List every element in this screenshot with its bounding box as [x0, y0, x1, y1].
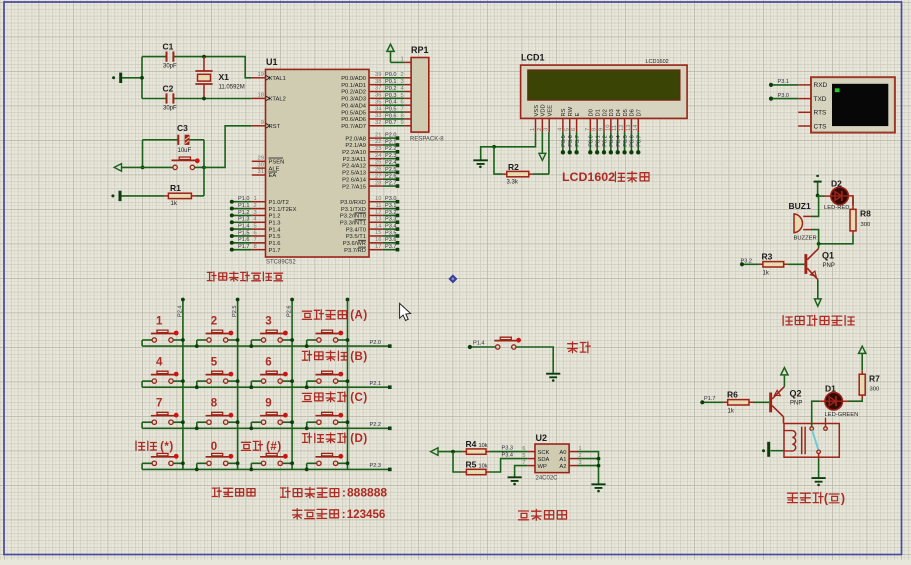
U1 pin 1 P1.0: [252, 201, 266, 203]
svg-text:RP1: RP1: [411, 45, 429, 55]
svg-text:P2.5/A13: P2.5/A13: [342, 171, 366, 177]
U1 pin 21 P2.0: [369, 137, 383, 139]
U1 pin 8 P1.7: [252, 249, 266, 251]
net P3.7 terminal: [383, 249, 397, 251]
svg-text:9: 9: [599, 128, 605, 131]
wire: [819, 235, 853, 244]
net P2.1 terminal: [388, 385, 392, 389]
U2 pin 6 SCK: [527, 451, 535, 453]
svg-text:P1.6: P1.6: [269, 241, 281, 247]
svg-text:15: 15: [375, 230, 381, 236]
svg-text:123456: 123456: [347, 508, 386, 521]
svg-text:): ): [841, 491, 845, 505]
wire net P3.5: [562, 132, 564, 152]
junction: [195, 468, 199, 472]
wire net P0.1: [596, 132, 598, 152]
wire: [577, 458, 599, 460]
svg-text:D1: D1: [825, 384, 836, 394]
svg-text:P2.2: P2.2: [385, 146, 397, 152]
button row4 col1: [142, 462, 152, 464]
svg-text:300: 300: [861, 222, 871, 228]
svg-text:RTS: RTS: [814, 110, 828, 117]
U1 pin 19 XTAL1: [252, 77, 266, 79]
svg-text:LCD1602: LCD1602: [646, 59, 669, 65]
svg-text:P0.1: P0.1: [595, 135, 601, 147]
U2 pin 7 WP: [527, 465, 535, 467]
U1 pin 33 P0.6: [369, 118, 383, 120]
svg-text:RXD: RXD: [814, 82, 828, 89]
wire VSS: [494, 132, 536, 147]
svg-text:X1: X1: [219, 72, 230, 82]
svg-text:11: 11: [612, 125, 618, 131]
svg-text:P3.3: P3.3: [502, 446, 514, 452]
text 一键还原（B）: [302, 351, 311, 361]
net P3.3 terminal: [383, 221, 397, 223]
net P2.2 terminal: [383, 151, 397, 153]
text 指纹: [568, 342, 578, 353]
svg-text:R4: R4: [466, 439, 477, 449]
net P1.4: [470, 346, 496, 348]
svg-text:RESPACK-8: RESPACK-8: [410, 137, 444, 143]
svg-text:27: 27: [375, 173, 381, 179]
wire: [825, 418, 827, 427]
svg-text:19: 19: [258, 72, 264, 78]
svg-text:R7: R7: [869, 374, 880, 384]
svg-text:VEE: VEE: [548, 105, 554, 117]
svg-text:(*): (*): [160, 441, 174, 453]
wire net P0.5: [624, 132, 626, 152]
wire net P0.2: [383, 91, 405, 93]
svg-text:P0.1/AD1: P0.1/AD1: [341, 83, 366, 89]
svg-text:1k: 1k: [763, 271, 770, 277]
wire: [788, 263, 805, 265]
ground: [508, 477, 522, 481]
svg-text:P2.3/A11: P2.3/A11: [343, 157, 366, 163]
U1 pin 38 P0.1: [369, 84, 383, 86]
svg-text:2: 2: [211, 316, 217, 328]
svg-text:29: 29: [258, 156, 264, 162]
svg-text:5: 5: [564, 128, 570, 131]
svg-text:P1.0/T2: P1.0/T2: [269, 200, 289, 206]
U1 pin 12 P3.2: [369, 214, 383, 216]
svg-text:RW: RW: [568, 106, 574, 116]
svg-text:P1.5: P1.5: [238, 230, 250, 236]
net P2.4 terminal: [383, 165, 397, 167]
button row4 col2: [197, 462, 207, 464]
svg-text:P2.7/A15: P2.7/A15: [342, 184, 366, 190]
net P2.0 terminal: [388, 344, 392, 348]
svg-text:P0.7: P0.7: [637, 135, 643, 147]
resistor pack RP1 RESPACK-8: [411, 58, 429, 133]
svg-text:R3: R3: [762, 252, 773, 262]
LED D2 LED-RED: [818, 195, 825, 197]
wire net P0.4: [617, 132, 619, 152]
text 添加指纹（C）: [302, 393, 311, 401]
svg-text:P3.1/TXD: P3.1/TXD: [341, 207, 366, 213]
U1 pin 9 RST: [252, 125, 266, 127]
net P2.1 terminal: [383, 144, 397, 146]
svg-text:P3.7: P3.7: [575, 135, 581, 147]
svg-text:R2: R2: [508, 162, 519, 172]
svg-text::: :: [342, 488, 346, 500]
svg-text:11: 11: [375, 203, 381, 209]
svg-text:P2.1: P2.1: [370, 381, 382, 387]
svg-text:31: 31: [258, 169, 264, 175]
wire: [577, 465, 599, 467]
svg-text:A2: A2: [559, 464, 566, 470]
buzzer BUZ1: [794, 214, 802, 233]
ground terminal: [771, 450, 785, 452]
svg-text:P2.5: P2.5: [385, 167, 397, 173]
fingerprint button: [496, 345, 500, 349]
svg-text:EA: EA: [269, 173, 277, 179]
svg-text:P3.2: P3.2: [385, 210, 397, 216]
U1 pin 13 P3.3: [369, 221, 383, 223]
svg-text:6: 6: [254, 230, 257, 236]
svg-text:7: 7: [585, 128, 591, 131]
svg-text:P3.2: P3.2: [741, 258, 753, 264]
svg-text:P3.6: P3.6: [385, 237, 397, 243]
text 删除指纹（D）: [302, 433, 311, 443]
svg-text:P3.0: P3.0: [385, 196, 397, 202]
svg-text:P0.4/AD4: P0.4/AD4: [341, 103, 367, 109]
svg-text:P3.7/RD: P3.7/RD: [344, 248, 366, 254]
wire net P0.7: [637, 132, 639, 152]
svg-text:17: 17: [375, 244, 381, 250]
power terminal: [114, 164, 121, 172]
LCD screen: [528, 70, 680, 100]
U1 pin 25 P2.4: [369, 165, 383, 167]
svg-text:PNP: PNP: [790, 401, 802, 407]
svg-text:P1.1: P1.1: [238, 203, 250, 209]
relay switch blade: [812, 430, 818, 449]
svg-text:25: 25: [375, 160, 381, 166]
U1 pin 7 P1.6: [252, 242, 266, 244]
junction: [492, 145, 496, 149]
svg-text:P3.4: P3.4: [502, 453, 514, 459]
wire: [783, 417, 785, 424]
U1 pin 16 P3.6: [369, 242, 383, 244]
junction: [305, 426, 309, 430]
svg-text::: :: [342, 509, 346, 521]
svg-text:P3.2/INT0: P3.2/INT0: [340, 214, 366, 220]
net P2.6 terminal: [383, 178, 397, 180]
ground: [818, 454, 820, 459]
svg-text:24C02C: 24C02C: [536, 476, 559, 482]
wire net P0.7: [383, 125, 405, 127]
RP1 pin 1: [404, 61, 411, 63]
svg-text:P1.7: P1.7: [704, 396, 716, 402]
resistor R4 10k: [462, 451, 490, 453]
svg-text:30: 30: [258, 162, 264, 168]
ground terminal (up): [814, 181, 822, 183]
relay contacts: [810, 427, 814, 431]
wire: [848, 196, 853, 200]
svg-text:P0.5: P0.5: [623, 135, 629, 147]
svg-text:38: 38: [375, 79, 381, 85]
U1 pin 37 P0.2: [369, 91, 383, 93]
svg-text:8: 8: [401, 113, 404, 119]
reset button: [143, 166, 173, 168]
svg-text:P3.1: P3.1: [778, 79, 790, 85]
svg-text:P2.5: P2.5: [232, 305, 238, 317]
svg-text:(A): (A): [350, 310, 367, 322]
power terminal VDD: [541, 132, 543, 153]
net P3.0: [771, 98, 798, 100]
wire net P0.5: [383, 111, 405, 113]
wire column 4: [347, 300, 349, 470]
wire net P0.1: [383, 84, 405, 86]
svg-text:P2.0: P2.0: [385, 133, 397, 139]
U1 pin 34 P0.5: [369, 111, 383, 113]
net P3.1 terminal: [383, 208, 397, 210]
svg-text:2: 2: [537, 128, 543, 131]
svg-text:P0.2: P0.2: [602, 135, 608, 147]
svg-text:D1: D1: [595, 109, 601, 116]
text 重置密码（A）: [302, 311, 311, 319]
svg-text:(B): (B): [350, 351, 367, 363]
ground arrow: [817, 279, 819, 299]
power terminal: [431, 448, 438, 456]
svg-text:D3: D3: [609, 109, 615, 116]
svg-text:28: 28: [375, 180, 381, 186]
svg-text:8: 8: [254, 244, 257, 250]
svg-text:BUZ1: BUZ1: [789, 201, 811, 211]
wire row bus P2.0: [142, 345, 389, 347]
svg-text:P3.0: P3.0: [778, 93, 790, 99]
svg-text:WP: WP: [538, 464, 547, 470]
svg-text:(D): (D): [350, 433, 367, 445]
svg-text:9: 9: [265, 398, 271, 410]
wire net P3.6: [569, 132, 571, 152]
svg-text:A0: A0: [559, 450, 566, 456]
svg-text:VDD: VDD: [541, 104, 547, 116]
junction: [817, 242, 821, 246]
svg-text:35: 35: [375, 99, 381, 105]
wire: [203, 140, 205, 196]
origin marker: [448, 274, 457, 283]
virtual terminal: [811, 77, 895, 132]
wire net P0.3: [383, 97, 405, 99]
resistor R3 1k: [759, 263, 788, 265]
ground: [546, 374, 560, 378]
wire net P0.2: [603, 132, 605, 152]
svg-text:300: 300: [870, 387, 880, 393]
svg-text:P3.7: P3.7: [385, 244, 397, 250]
svg-text:10uF: 10uF: [178, 148, 192, 154]
svg-text:Q2: Q2: [790, 389, 802, 399]
button row3 col4: [307, 421, 317, 423]
junction: [249, 468, 253, 472]
svg-text:7: 7: [401, 106, 404, 112]
svg-text:P0.2/AD2: P0.2/AD2: [341, 90, 366, 96]
button row4 col4: [307, 462, 317, 464]
svg-text:5: 5: [522, 453, 525, 459]
svg-text:P2.2: P2.2: [370, 422, 382, 428]
svg-text:P1.4: P1.4: [473, 341, 485, 347]
svg-text:37: 37: [375, 86, 381, 92]
wire net P0.4: [383, 104, 405, 106]
junction: [451, 450, 455, 454]
junction: [195, 426, 199, 430]
svg-text:P0.3: P0.3: [609, 135, 615, 147]
svg-text:PNP: PNP: [823, 263, 835, 269]
EEPROM U2 24C02C: [535, 444, 569, 473]
svg-text:P1.5: P1.5: [269, 234, 281, 240]
svg-text:P3.5: P3.5: [385, 230, 397, 236]
net P3.5 terminal: [383, 235, 397, 237]
U1 pin 36 P0.3: [369, 97, 383, 99]
text 声光报警电路: [783, 316, 792, 326]
svg-text:P1.7: P1.7: [269, 248, 281, 254]
svg-text:1k: 1k: [171, 201, 178, 207]
wire WP to ground: [515, 466, 528, 477]
svg-text:26: 26: [375, 167, 381, 173]
junction: [141, 166, 145, 170]
relay RL1: [784, 424, 839, 458]
ground: [481, 147, 494, 160]
svg-text:888888: 888888: [347, 486, 387, 500]
svg-text:P3.5: P3.5: [561, 135, 567, 147]
svg-text:P0.6: P0.6: [630, 135, 636, 147]
svg-text:R5: R5: [466, 460, 477, 470]
resistor R1 1k: [164, 195, 195, 197]
U1 pin 24 P2.3: [369, 158, 383, 160]
svg-text:P2.0/A8: P2.0/A8: [345, 136, 366, 142]
svg-text:C1: C1: [163, 42, 174, 52]
U1 pin 2 P1.1: [252, 208, 266, 210]
U1 pin 3 P1.2: [252, 214, 266, 216]
svg-text:P2.3: P2.3: [370, 463, 382, 469]
svg-text:12: 12: [375, 210, 381, 216]
svg-text:LED-GREEN: LED-GREEN: [825, 412, 859, 418]
svg-text:P3.5/T1: P3.5/T1: [346, 234, 366, 240]
wire: [141, 57, 143, 99]
svg-text:23: 23: [375, 146, 381, 152]
U1 pin 39 P0.0: [369, 77, 383, 79]
svg-text:5: 5: [254, 224, 257, 230]
svg-text:P0.0/AD0: P0.0/AD0: [341, 76, 366, 82]
svg-text:P3.3/INT1: P3.3/INT1: [340, 220, 366, 226]
svg-text:P2.6/A14: P2.6/A14: [342, 177, 367, 183]
button row2 col3: [251, 380, 261, 382]
LED D1 LED-GREEN: [825, 392, 843, 410]
text 管理员密码：888888: [280, 487, 290, 497]
net P3.1: [771, 84, 798, 86]
net P3.6 terminal: [383, 242, 397, 244]
junction: [305, 385, 309, 389]
mouse cursor: [400, 303, 411, 320]
svg-text:21: 21: [375, 132, 381, 138]
U1 pin 14 P3.4: [369, 228, 383, 230]
svg-text:0: 0: [211, 441, 217, 453]
U1 pin 32 P0.7: [369, 125, 383, 127]
wire: [577, 452, 599, 484]
U2 pin 5 SDA: [527, 458, 535, 460]
svg-text:10k: 10k: [479, 443, 488, 449]
button row1 col3: [251, 339, 261, 341]
svg-text:13: 13: [626, 125, 632, 131]
button row2 col4: [307, 380, 317, 382]
svg-text:1: 1: [156, 316, 163, 328]
svg-text:P1.0: P1.0: [238, 196, 250, 202]
wire: [204, 57, 252, 78]
svg-text:R1: R1: [170, 183, 181, 193]
power terminal: [783, 376, 785, 387]
wire column 3: [291, 300, 293, 470]
svg-text:6: 6: [401, 100, 404, 106]
resistor R2 3.3k: [494, 147, 503, 174]
U1 pin 28 P2.7: [369, 185, 383, 187]
svg-text:10k: 10k: [479, 464, 488, 470]
U2 pin 2 A1: [569, 458, 577, 460]
svg-text:BUZZER: BUZZER: [794, 235, 817, 241]
svg-text:TXD: TXD: [814, 96, 827, 103]
svg-text:36: 36: [375, 93, 381, 99]
svg-text:P2.1: P2.1: [385, 139, 397, 145]
net P3.2: [742, 263, 759, 265]
svg-text:P3.6/WR: P3.6/WR: [343, 241, 366, 247]
svg-text:P0.5: P0.5: [385, 106, 397, 112]
svg-text:Q1: Q1: [822, 251, 834, 261]
net P2.5 terminal: [383, 171, 397, 173]
svg-text:P2.6: P2.6: [385, 174, 397, 180]
U1 pin 22 P2.1: [369, 144, 383, 146]
svg-text:R8: R8: [860, 209, 871, 219]
transistor Q1 PNP: [804, 254, 807, 274]
U1 pin 23 P2.2: [369, 151, 383, 153]
resistor R8 300: [852, 205, 854, 235]
svg-text:P1.7: P1.7: [238, 244, 250, 250]
svg-text:P3.4: P3.4: [385, 224, 397, 230]
U1 pin 26 P2.5: [369, 171, 383, 173]
U1 pin 27 P2.6: [369, 178, 383, 180]
svg-text:1: 1: [530, 128, 536, 131]
wire: [204, 98, 252, 100]
U1 pin 6 P1.5: [252, 235, 266, 237]
wire row bus P2.1: [142, 386, 389, 388]
svg-text:30pF: 30pF: [163, 106, 177, 112]
junction: [305, 344, 309, 348]
wire net P0.6: [383, 118, 405, 120]
svg-text:16: 16: [375, 237, 381, 243]
U1 pin 4 P1.3: [252, 221, 266, 223]
U1 pin 10 P3.0: [369, 201, 383, 203]
U1 pin 11 P3.1: [369, 208, 383, 210]
svg-text:P2.4: P2.4: [177, 305, 183, 317]
resistor R6 1k: [724, 401, 753, 403]
svg-text:12: 12: [619, 125, 625, 131]
svg-text:P0.0: P0.0: [385, 72, 397, 78]
wire: [811, 230, 819, 244]
svg-text:(C): (C): [350, 392, 367, 404]
U1 pin 30 ALE: [252, 167, 266, 169]
svg-text:STC89C52: STC89C52: [266, 260, 296, 266]
svg-text:D4: D4: [616, 108, 622, 116]
svg-text:C3: C3: [177, 123, 188, 133]
wire row bus P2.2: [142, 427, 389, 429]
wire net P3.7: [576, 132, 578, 152]
svg-text:PSEN: PSEN: [269, 160, 285, 166]
junction: [202, 97, 206, 101]
wire net P3.3: [490, 451, 527, 453]
svg-text:A1: A1: [559, 457, 566, 463]
wire: [842, 400, 849, 402]
U2 pin 3 A2: [569, 465, 577, 467]
wire net P0.0: [589, 132, 591, 152]
ground terminal: [119, 191, 122, 201]
svg-text:P2.3: P2.3: [385, 153, 397, 159]
